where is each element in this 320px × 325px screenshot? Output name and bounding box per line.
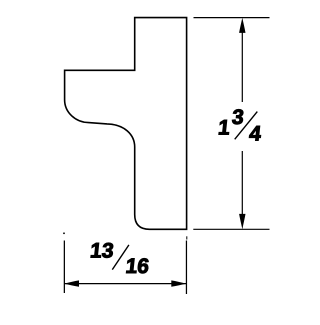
svg-text:13: 13 bbox=[89, 239, 115, 262]
dimension text 1 3/4 bbox=[217, 106, 263, 145]
horizontal dimension line bbox=[64, 283, 186, 285]
left extension line of bottom dimension bbox=[63, 241, 65, 294]
svg-text:1: 1 bbox=[217, 117, 231, 140]
speck above left extension bbox=[63, 232, 65, 234]
speck dash above right extension bbox=[186, 236, 188, 239]
right extension line of bottom dimension bbox=[185, 241, 187, 295]
down arrowhead bbox=[239, 214, 245, 230]
left arrowhead bbox=[64, 280, 79, 286]
right arrowhead bbox=[171, 280, 186, 286]
top extension line bbox=[194, 17, 270, 19]
dimension text 13/16 bbox=[89, 239, 150, 278]
vertical dimension line upper segment bbox=[241, 30, 243, 102]
molding profile outline bbox=[65, 18, 187, 230]
vertical dimension line lower segment bbox=[241, 151, 243, 217]
bottom-right extension line bbox=[193, 228, 269, 230]
svg-text:4: 4 bbox=[248, 123, 262, 146]
svg-text:3: 3 bbox=[231, 106, 245, 129]
up arrowhead bbox=[239, 18, 245, 33]
svg-text:16: 16 bbox=[124, 255, 150, 278]
